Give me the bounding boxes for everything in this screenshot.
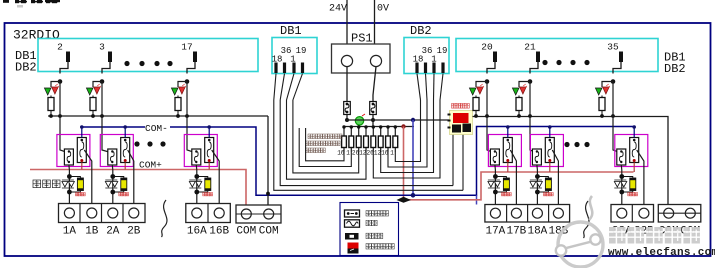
fuse CH32-A (617, 149, 626, 165)
svg-text:DB2: DB2 (410, 24, 432, 38)
LED pair CH1 (green/red) (44, 84, 59, 95)
resistor RN1 (337, 125, 346, 156)
wire COM link right (658, 212, 701, 214)
ellipsis dots (left connector) (124, 61, 172, 66)
wire CH17 output B diagonal (510, 150, 516, 206)
wire DB1 pin fan 3 (287, 74, 295, 101)
LED pair CH2 (green/red) (86, 84, 101, 95)
connector box DB1 power pins (18,36,1,19) (272, 38, 317, 74)
wire 0V supply (374, 0, 376, 56)
connector pin bar (301, 63, 304, 74)
resistor RN7 (381, 125, 390, 156)
fuse CH2-A (108, 149, 117, 165)
note text (3 lines, resistor values) (306, 134, 342, 153)
fuse CH2-B (121, 138, 130, 163)
svg-text:COM: COM (259, 226, 279, 238)
wire CH2 output B diagonal (128, 150, 134, 206)
wire CH2 COM+ tap (124, 163, 126, 170)
fuse CH1-A (64, 149, 73, 165)
wire fuse F2 to 24V bus (372, 115, 374, 127)
LED pair CH16 (green/red) (171, 84, 186, 95)
terminal block 1A/1B/2A/2B (59, 204, 146, 223)
fuse CH18-A (532, 149, 541, 165)
connector pin bar (424, 63, 427, 74)
connector pin bar (441, 63, 444, 74)
fuse holder box CH17 (488, 135, 521, 167)
connector pin bar (432, 63, 435, 74)
connector pin 17 (181, 42, 197, 74)
ellipsis dots (right connector) (542, 60, 589, 65)
fuse holder box CH2 (100, 135, 133, 167)
svg-text:1: 1 (390, 150, 394, 157)
terminal block COM/COM right (658, 205, 701, 223)
LED pair CH17 (green/red) (469, 84, 484, 95)
fuse CH17-B (503, 138, 512, 163)
node CH18 input (528, 79, 533, 84)
resistor RN3 (352, 125, 361, 156)
wire CH17 main drop (487, 82, 495, 154)
wire PS1 to fuse F1 (346, 67, 348, 102)
fuse CH1-B (77, 138, 86, 163)
break symbol right (584, 201, 589, 238)
svg-text:24V: 24V (329, 4, 347, 15)
resistor RN8 (390, 125, 397, 156)
wire CH16 LED branch (178, 82, 187, 88)
svg-text:www.elecfans.com: www.elecfans.com (608, 247, 715, 259)
resistor RN4 (359, 125, 368, 156)
fuse F2 (370, 102, 377, 115)
wire CH18 LED branch (519, 82, 530, 88)
node CH1 input (58, 79, 63, 84)
connector pin bar (274, 63, 277, 74)
svg-text:0V: 0V (377, 4, 389, 15)
wire CH18 output B diagonal (552, 150, 558, 206)
wire 24V supply (346, 0, 348, 56)
svg-text:17: 17 (181, 42, 192, 53)
svg-text:DB2: DB2 (15, 61, 37, 75)
test point CH1 (62, 174, 85, 196)
connector box DB1/DB2 right half (pins 20-35) (456, 39, 658, 72)
svg-text:19: 19 (437, 46, 448, 56)
wire CH16 main drop (187, 82, 196, 154)
wire CH17 COM- tap (507, 127, 509, 138)
resistor CH17 (473, 96, 489, 118)
wire CH32 output A drop (620, 165, 623, 206)
connector pin 21 (524, 42, 540, 74)
svg-text:3: 3 (99, 42, 105, 53)
svg-text:32RDIO: 32RDIO (13, 28, 60, 43)
fuse F1 (344, 102, 351, 115)
junction arrow COM+ (397, 197, 412, 203)
wire red riser (COM+) (403, 127, 405, 199)
wire CH18 COM+ tap (549, 163, 551, 173)
connector pin bar (415, 63, 418, 74)
wire corner to RN3 (293, 100, 359, 173)
resistor CH2 (90, 96, 104, 118)
wire DB1 pin fan 4 (293, 74, 303, 101)
wire CH32 main drop (613, 82, 621, 154)
wire 24V bus (lower, resistor rail) (344, 126, 414, 128)
svg-text:2A: 2A (106, 226, 120, 238)
test point CH18 (530, 174, 553, 196)
page title (cropped) (3, 0, 60, 8)
terminal block 16A/16B (186, 204, 231, 223)
legend icon fuse socket (345, 210, 389, 217)
svg-text:COM+: COM+ (139, 160, 162, 171)
wire LED rail left (48, 115, 268, 117)
node blue riser junction (411, 118, 415, 122)
svg-text:17A: 17A (485, 226, 505, 238)
wire corner to RN4 (287, 100, 367, 179)
power LED (green) (355, 114, 365, 125)
node 24V rail / red riser junction (401, 124, 405, 128)
resistor CH32 (599, 96, 615, 118)
fuse CH32-B (630, 138, 639, 163)
connector box DB1/DB2 left half (pins 2-17) (38, 39, 258, 72)
svg-text:20: 20 (481, 42, 493, 53)
wire CH2 LED branch (93, 82, 102, 88)
wire COM- bus left (81, 126, 145, 128)
watermark elecfans (556, 196, 715, 267)
connector box DB2 power pins (18,36,1,19) (404, 38, 449, 74)
svg-text:16B: 16B (209, 226, 229, 238)
connector pin 2 (57, 42, 70, 74)
wire COM- stub down (476, 195, 478, 204)
wire CH32 LED branch (602, 82, 613, 88)
wire CH17 output A drop (494, 165, 497, 206)
terminal block 32A/32B (611, 205, 654, 223)
fuse holder box CH1 (57, 135, 90, 167)
LED pair CH18 (green/red) (512, 84, 527, 95)
svg-text:COM-: COM- (145, 123, 168, 134)
fuse holder box CH16 (184, 135, 217, 167)
legend box (340, 203, 399, 256)
resistor RN6 (374, 125, 383, 156)
wire long corner 2 (280, 100, 453, 186)
wire DB1 pin fan 1 (274, 74, 276, 101)
legend icon shorting cap (345, 233, 383, 240)
wire corner to RN6 (381, 100, 434, 173)
resistor CH16 (175, 96, 189, 118)
svg-text:DB2: DB2 (664, 62, 686, 76)
svg-text:2B: 2B (127, 226, 141, 238)
test point CH32 (614, 174, 637, 196)
wire CH1 output A drop (68, 165, 71, 206)
terminal block COM/COM left (236, 205, 281, 223)
resistor CH1 (48, 96, 62, 118)
wire CH1 COM+ tap (81, 163, 83, 170)
svg-text:35: 35 (607, 42, 619, 53)
wire DB2 pin fan 3 (433, 74, 436, 101)
resistor RN2 (346, 125, 353, 156)
wire jumper riser (462, 135, 464, 191)
fuse CH18-B (545, 138, 554, 163)
wire CH1 main drop (60, 82, 69, 154)
node fuse F1 output (345, 118, 349, 122)
svg-text:COM: COM (236, 226, 256, 238)
connector pin bar (292, 63, 295, 74)
label test hole (cexi kong) (33, 180, 41, 188)
wire CH2 main drop (102, 82, 112, 154)
svg-text:1A: 1A (63, 226, 77, 238)
ellipsis dots right block (564, 142, 589, 147)
connector pin bar (283, 63, 286, 74)
wire DB2 pin fan 4 (440, 74, 443, 101)
connector pin 20 (481, 42, 497, 74)
wire COM+ bus right (404, 172, 634, 200)
wire CH1 COM- tap (81, 127, 83, 138)
wire 24V bus (upper) (347, 119, 450, 121)
legend icon solder jumper (348, 243, 395, 254)
LED pair CH32 (green/red) (595, 84, 610, 95)
node fuse F2 output (371, 118, 375, 122)
fuse CH16-A (192, 149, 201, 165)
legend icon fuse (345, 220, 378, 227)
wire long corner to jumper (274, 100, 463, 190)
node LED rail drop junction (266, 192, 270, 196)
node COM- junction (411, 193, 416, 198)
wire CH16 output B diagonal (212, 150, 220, 206)
wire blue riser (COM-) (412, 120, 414, 195)
fuse CH16-B (205, 138, 214, 163)
wire COM+ bus left (30, 170, 246, 210)
solder jumper block (red/black) (448, 104, 473, 135)
fuse CH17-A (490, 149, 499, 165)
resistor CH18 (516, 96, 532, 118)
wire PS1 to fuse F2 (373, 67, 376, 102)
wire CH17 COM+ tap (507, 163, 509, 173)
svg-text:1B: 1B (85, 226, 99, 238)
fuse holder box CH32 (615, 135, 648, 167)
svg-text:1: 1 (346, 150, 350, 157)
test point CH17 (488, 174, 511, 196)
svg-text:18A: 18A (527, 226, 547, 238)
wire CH18 output A drop (536, 165, 539, 206)
wire CH18 main drop (530, 82, 537, 154)
wire fuse F1 to 24V bus (346, 115, 348, 121)
svg-text:16A: 16A (187, 226, 207, 238)
wire CH32 output B diagonal (637, 150, 644, 206)
node CH32 input (611, 79, 616, 84)
wire corner to RN1 (306, 128, 344, 161)
wire CH32 COM+ tap (633, 163, 635, 173)
wire CH2 COM- tap (124, 127, 126, 138)
wire COM- bus left part2 (170, 127, 634, 196)
ellipsis dots left block (134, 141, 165, 146)
wire CH1 output B diagonal (84, 150, 92, 206)
test point CH2 (105, 174, 128, 196)
svg-text:2: 2 (57, 42, 63, 53)
wire CH17 LED branch (476, 82, 487, 88)
node CH2 input (100, 79, 105, 84)
wire corner to RN7 (388, 100, 427, 167)
svg-text:19: 19 (296, 46, 307, 56)
svg-text:17B: 17B (506, 226, 526, 238)
wire CH32 COM- tap (633, 127, 635, 138)
wire DB2 pin fan 1 (417, 74, 421, 101)
wire COM link left (236, 213, 281, 215)
node CH16 input (185, 79, 190, 84)
wire CH1 LED branch (51, 82, 60, 88)
svg-text:21: 21 (524, 42, 536, 53)
break symbol left (162, 200, 167, 237)
wire LED rail right (473, 117, 669, 207)
wire corner to RN8 (395, 100, 420, 162)
svg-text:DB1: DB1 (280, 24, 302, 38)
connector pin 35 (607, 42, 623, 74)
resistor RN5 (366, 125, 375, 156)
terminal block 17A/17B/18A/18B (485, 205, 570, 223)
wire CH16 COM+ tap (208, 163, 210, 170)
power supply PS1 (332, 32, 391, 74)
wire corner to RN5 (373, 100, 440, 178)
wire CH2 output A drop (111, 165, 114, 206)
wire CH18 COM- tap (549, 127, 551, 138)
wire DB1 pin fan 2 (280, 74, 284, 101)
wire LED rail left drop to COM terminal (267, 116, 269, 206)
wire riser long corner 2 up (452, 128, 454, 186)
connector pin 3 (99, 42, 112, 74)
test point CH16 (189, 174, 212, 196)
wire corner to RN2 (299, 128, 351, 167)
wire CH16 output A drop (195, 165, 198, 206)
wire CH16 COM- tap (208, 127, 210, 138)
fuse holder box CH18 (530, 135, 563, 167)
node CH17 input (485, 79, 490, 84)
wire DB2 pin fan 2 (426, 74, 428, 101)
